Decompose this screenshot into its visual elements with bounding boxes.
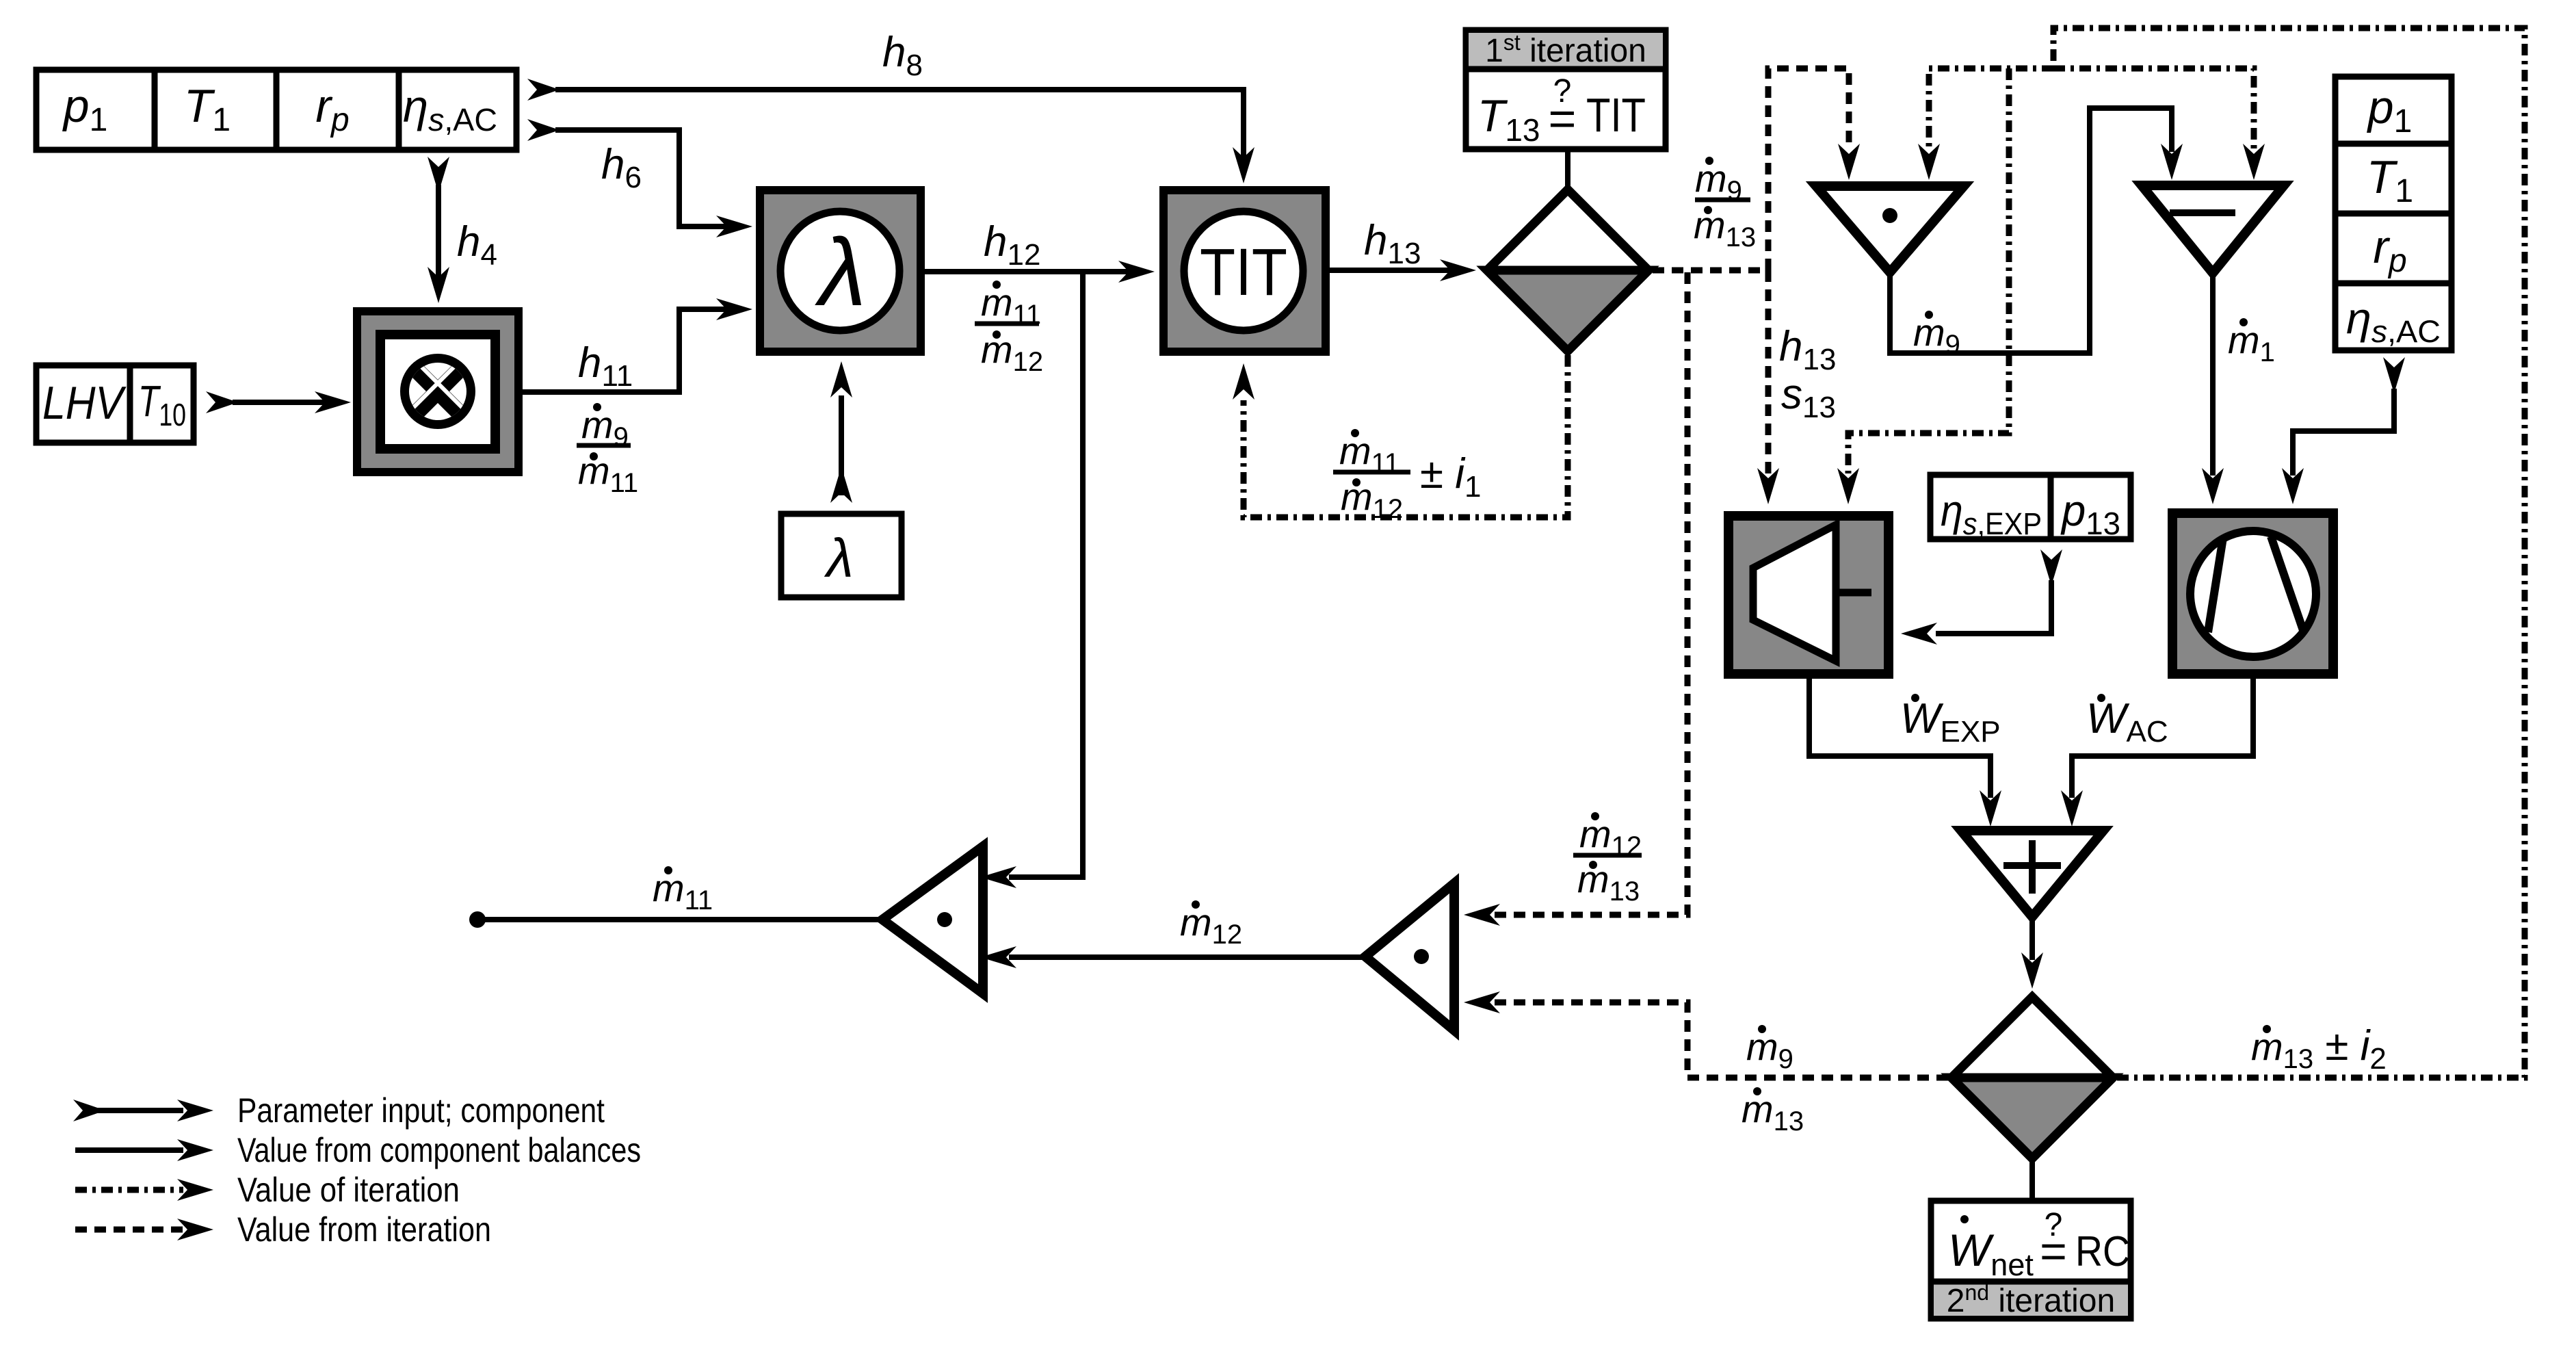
wire h4 from table1 down to combustor [436, 185, 441, 277]
label fraction m12/m13 at M4 [1573, 812, 1642, 907]
compressor block [2168, 508, 2338, 679]
wire m1 from subtractor to compressor [2210, 273, 2216, 476]
wire W_EXP expander to adder [1809, 679, 1990, 798]
label m13 +- i2 [2251, 1022, 2387, 1076]
legend row2 value from component balances [75, 1131, 641, 1169]
arrow end h11 into lambda [716, 298, 752, 320]
svg-text:TIT: TIT [1586, 88, 1646, 142]
parameter table2 p1 T1 rp eta_s,AC [2335, 77, 2452, 350]
LEGEND [73, 1091, 641, 1249]
label m9 multiplier output [1913, 311, 1960, 360]
arrow end h12 into TIT [1118, 261, 1155, 283]
parameter box LHV T10 [36, 365, 194, 443]
wire adder to comparator C2 [2029, 917, 2035, 960]
arrow end W_EXP into adder [1980, 790, 2001, 827]
wire dash-dot branch down to expander [1848, 68, 2009, 473]
wire LHV/T10 to combustor [233, 400, 325, 405]
multiplier M3 triangle with dot [882, 846, 983, 993]
arrow end W_AC into adder [2061, 790, 2083, 827]
arrow end LHV into combustor [315, 391, 351, 413]
arrow end dashed into M4 upper [1464, 904, 1500, 926]
Wnet box with 2nd iteration band [1931, 1201, 2131, 1318]
legend row1 parameter input [73, 1091, 605, 1130]
comparator C2 diamond [1951, 997, 2113, 1158]
svg-text:λ: λ [824, 528, 853, 588]
label W_EXP [1900, 694, 2001, 749]
node terminal dot m11 [469, 911, 486, 928]
wire lambda parameter up into lambda box [839, 395, 844, 495]
wire dashed C2 left to multiplier M4 [1495, 1002, 1948, 1078]
subtractor triangle [2142, 185, 2284, 273]
arrow end dash-dot into expander [1837, 468, 1859, 504]
arrow start chevron LHV [206, 391, 238, 413]
svg-text:=: = [1549, 92, 1577, 145]
lambda parameter box [781, 514, 902, 597]
arrow end dashed into M4 lower [1464, 991, 1500, 1013]
arrow end m12 into M3 [980, 946, 1016, 968]
arrow end lambda param into lambda box [830, 361, 852, 398]
lambda calculation block [756, 186, 925, 356]
arrow end dashed into expander [1757, 468, 1779, 504]
arrow start chevron table1 line1 [527, 79, 560, 101]
wire comparator C2 to Wnet box [2029, 1162, 2035, 1201]
arrow end m9 into subtractor [2161, 144, 2183, 180]
svg-text:m13 ± i2: m13 ± i2 [2251, 1022, 2387, 1076]
wire dash-dot iteration i2 loop from C2 around top [2053, 28, 2525, 1078]
multiplier M4 triangle with dot [1365, 883, 1454, 1030]
1st iteration box [1466, 30, 1666, 149]
legend row3 value of iteration [75, 1171, 460, 1209]
wire h8 from table1 to TIT top [555, 90, 1244, 157]
wire dash-dot branch to multiplier M1 [1929, 68, 2053, 149]
svg-text:λ: λ [815, 218, 867, 326]
label m12 on wire [1180, 900, 1242, 950]
svg-text:RC: RC [2075, 1228, 2130, 1275]
arrow end h8 into TIT [1233, 147, 1254, 183]
wire h13 TIT to comparator C1 [1330, 268, 1450, 273]
label W_AC [2086, 694, 2168, 749]
arrow end eta_s,EXP into expander [1901, 623, 1937, 645]
wire dash-dot iteration i1 loop from C1 to TIT bottom [1244, 355, 1568, 517]
adder triangle with plus [1961, 831, 2103, 917]
label m13 under wire at C2 [1742, 1087, 1804, 1136]
label m1 [2228, 318, 2275, 367]
wire dashed C1 output right [1653, 268, 1768, 274]
wire h6 from table1 to lambda box [555, 130, 726, 226]
svg-text:=: = [2040, 1225, 2067, 1277]
arrow end adder output into C2 [2021, 952, 2043, 989]
wire dashed m12/m13 down to multiplier M4 [1495, 272, 1687, 915]
arrow end h13 into C1 [1440, 259, 1476, 281]
arrow end dashed into M1 [1838, 144, 1860, 180]
TIT block [1159, 186, 1330, 356]
legend row4 value from iteration [75, 1210, 491, 1249]
svg-text:Value from component balances: Value from component balances [237, 1131, 641, 1169]
arrow end dash-dot into subtractor [2243, 144, 2265, 180]
arrow start chevron lambda param [830, 467, 852, 503]
label m9 over wire at C2 [1746, 1025, 1793, 1074]
wire m12 multiplier M4 to multiplier M3 [1009, 954, 1363, 960]
label Wnet =? RC [1948, 1207, 2130, 1282]
arrow end m1 into compressor [2202, 468, 2224, 504]
parameter box eta_s,EXP p13 [1930, 475, 2131, 539]
wire m9 from multiplier M1 to subtractor [1890, 108, 2172, 353]
arrow end table2 wire into compressor [2282, 468, 2304, 504]
wire m11 output from multiplier M3 [477, 917, 880, 922]
svg-text:Parameter input; component: Parameter input; component [237, 1091, 605, 1130]
combustor block [353, 307, 523, 476]
svg-text:Value of iteration: Value of iteration [237, 1171, 460, 1209]
expander block [1724, 511, 1893, 679]
label fraction m9/m13 at C1 output [1694, 157, 1756, 252]
wire h12 lambda to TIT [925, 269, 1129, 274]
arrow end dash-dot up into TIT bottom [1233, 363, 1254, 400]
comparator C1 diamond [1487, 190, 1648, 351]
wire h12 branch down to multiplier M3 [1009, 272, 1083, 877]
arrow start chevron h4 [428, 157, 449, 193]
wire eta_s,EXP parameters into expander [1936, 580, 2051, 634]
label fraction m9/m11 [577, 403, 638, 498]
arrow start chevron table1 line2 [527, 119, 560, 141]
label m11 on output wire [653, 866, 713, 915]
wire comparator C1 to iteration box [1565, 152, 1570, 188]
arrow start chevron table2 [2383, 357, 2405, 393]
wire W_AC compressor to adder [2072, 679, 2253, 798]
wire h11 combustor to lambda box [523, 309, 726, 392]
label fraction m11/m12 [975, 281, 1043, 377]
wire dash-dot branch to subtractor [2053, 68, 2254, 149]
wire dashed up-over to multiplier M1 [1768, 68, 1849, 270]
arrow end h4 into combustor [428, 267, 449, 303]
arrow end h12 branch into M3 [980, 866, 1016, 888]
arrow end dash-dot into M1 [1918, 144, 1940, 180]
parameter table p1 T1 rp etas,AC [36, 70, 516, 150]
wire dashed h13 s13 down to expander [1765, 270, 1772, 473]
label fraction m11/m12 +- i1 [1333, 429, 1482, 524]
label T13 =? TIT [1477, 73, 1646, 148]
arrow end h6 into lambda [716, 216, 752, 237]
svg-text:Value from iteration: Value from iteration [237, 1210, 491, 1249]
arrow start chevron eta_s,EXP [2040, 549, 2062, 586]
wire from table2 down to compressor [2293, 389, 2394, 476]
svg-text:TIT: TIT [1200, 235, 1287, 309]
multiplier M1 triangle with dot [1816, 186, 1964, 272]
svg-text:LHV: LHV [42, 377, 127, 429]
